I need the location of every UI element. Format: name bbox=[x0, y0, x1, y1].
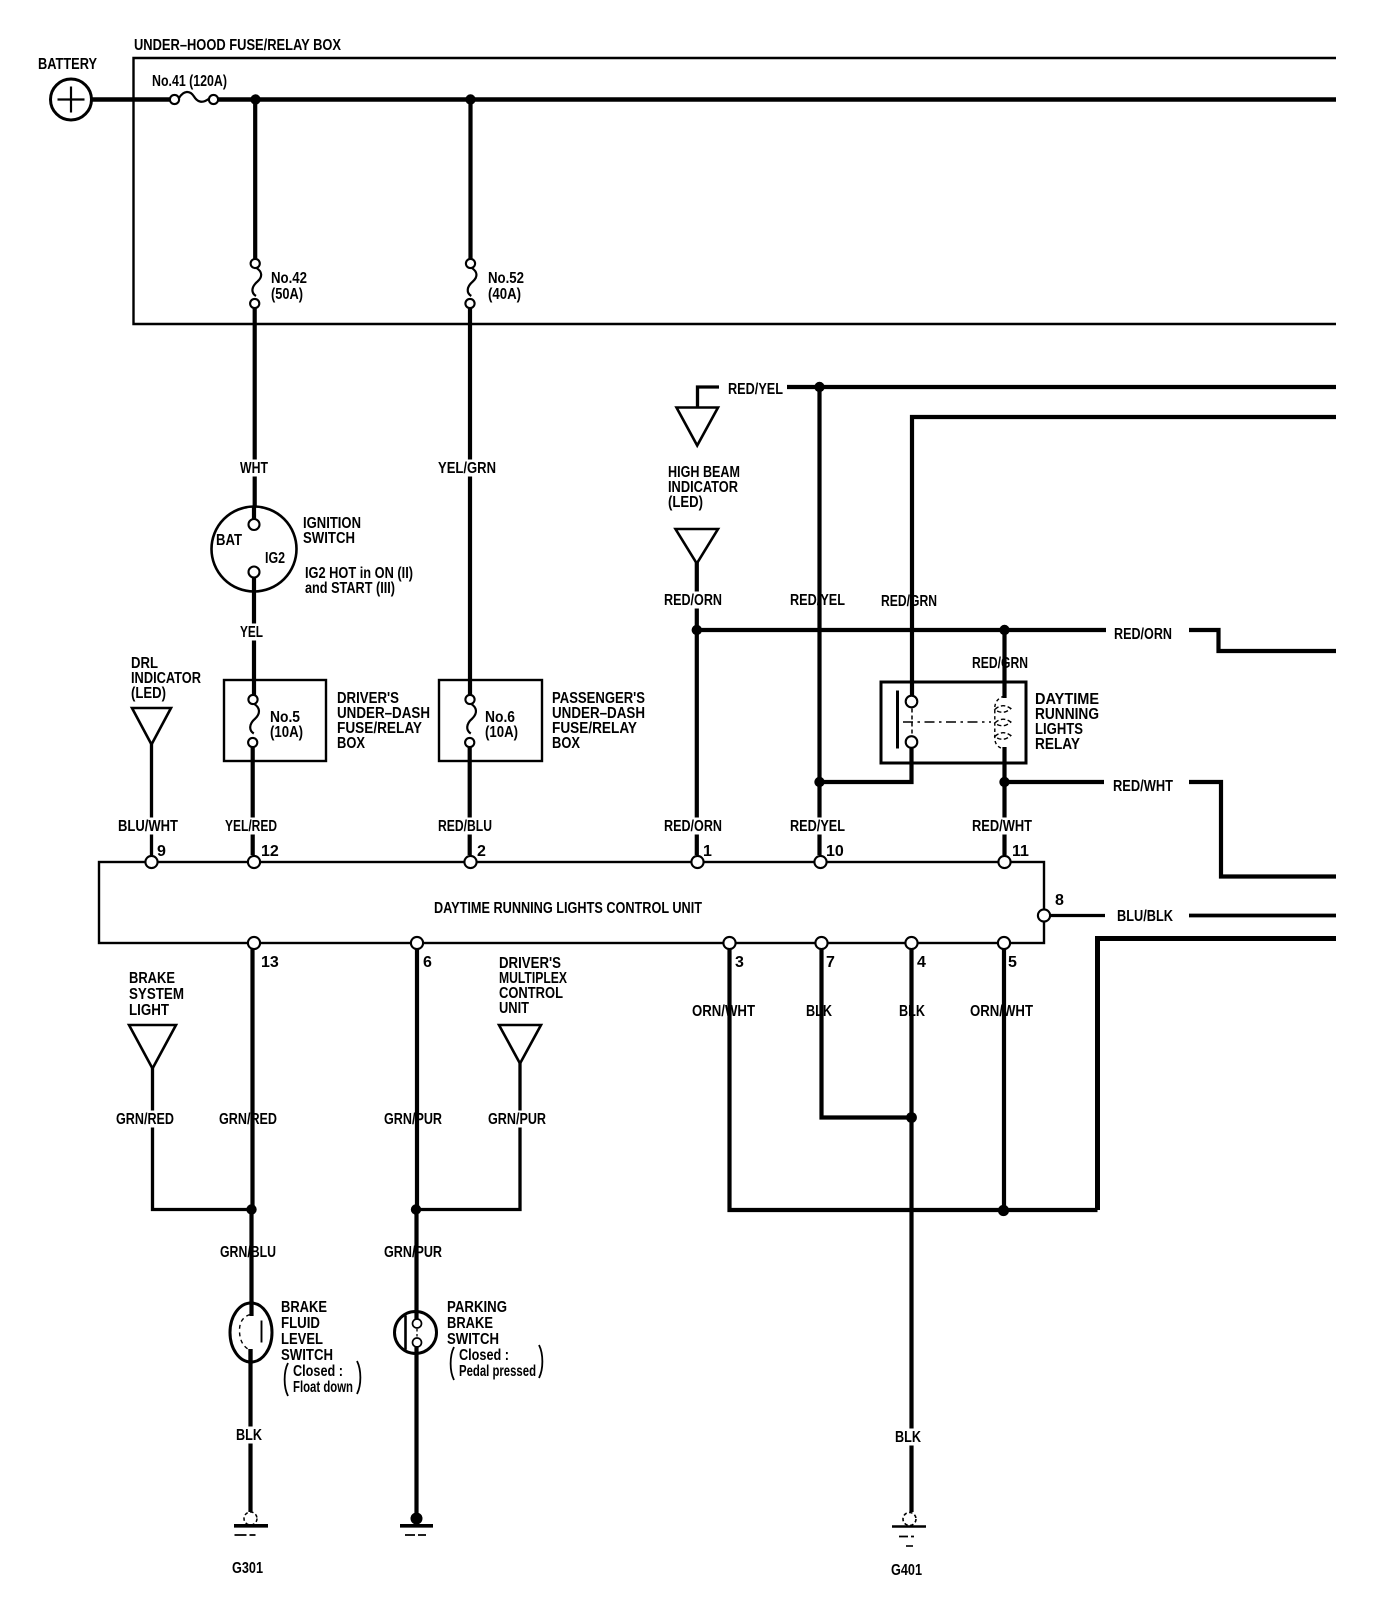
svg-text:RED/YEL: RED/YEL bbox=[728, 381, 783, 398]
svg-text:RED/BLU: RED/BLU bbox=[438, 818, 492, 835]
svg-text:SWITCH: SWITCH bbox=[303, 530, 355, 547]
svg-text:UNIT: UNIT bbox=[499, 1000, 529, 1017]
label WHT bbox=[237, 460, 271, 477]
svg-text:G401: G401 bbox=[891, 1562, 922, 1579]
svg-text:YEL/RED: YEL/RED bbox=[225, 818, 277, 835]
svg-text:No.42: No.42 bbox=[271, 270, 307, 287]
svg-text:(10A): (10A) bbox=[485, 724, 518, 741]
svg-text:BRAKE: BRAKE bbox=[447, 1315, 493, 1332]
svg-text:G301: G301 bbox=[232, 1560, 263, 1577]
wire RED/YEL bus to right edge bbox=[787, 385, 1336, 389]
svg-text:LEVEL: LEVEL bbox=[281, 1331, 323, 1348]
daytime running lights control unit box bbox=[99, 862, 1044, 943]
wire BLU/BLK pin 8 bbox=[1051, 914, 1105, 917]
svg-text:4: 4 bbox=[917, 954, 926, 971]
node junction bus/fuse52 bbox=[465, 94, 475, 104]
svg-text:RED/WHT: RED/WHT bbox=[972, 818, 1032, 835]
svg-text:GRN/PUR: GRN/PUR bbox=[488, 1111, 546, 1128]
svg-text:BLU/WHT: BLU/WHT bbox=[118, 818, 178, 835]
svg-text:(50A): (50A) bbox=[271, 286, 303, 303]
wire GRN/PUR multiplex branch bbox=[416, 1062, 520, 1210]
wire BLK pin 4 down to ground G401 bbox=[909, 949, 913, 1512]
driver's under-dash fuse/relay box bbox=[224, 680, 326, 761]
label RED/ORN above pin 1 bbox=[661, 818, 725, 835]
passenger's under-dash fuse/relay box bbox=[439, 680, 542, 761]
svg-text:12: 12 bbox=[261, 843, 279, 860]
high beam indicator LED triangle lower bbox=[676, 529, 719, 564]
wire YEL/RED fuse5 to pin 12 bbox=[251, 747, 255, 855]
label YEL bbox=[237, 624, 266, 641]
relay contact lower bbox=[906, 736, 918, 748]
node junction RED/ORN left bbox=[692, 625, 702, 635]
label GRN/PUR lower bbox=[381, 1244, 445, 1261]
label RED/YEL mid bbox=[787, 592, 848, 609]
ground G301 bbox=[234, 1512, 268, 1535]
svg-text:UNDER–HOOD FUSE/RELAY BOX: UNDER–HOOD FUSE/RELAY BOX bbox=[134, 37, 341, 54]
wire RED/WHT bus right bbox=[1008, 780, 1104, 784]
svg-text:(10A): (10A) bbox=[270, 724, 303, 741]
wire off-page to ORN/WHT branch y940 bbox=[1098, 939, 1337, 1211]
svg-text:LIGHT: LIGHT bbox=[129, 1002, 169, 1019]
wire GRN/RED brake light branch bbox=[153, 1067, 252, 1210]
node junction GRN/PUR bbox=[411, 1204, 421, 1214]
fuse No.41 bbox=[170, 92, 218, 104]
fuse No.6 bbox=[465, 695, 476, 747]
wire ORN/WHT pin 5 down bbox=[1002, 949, 1006, 1210]
svg-text:WHT: WHT bbox=[240, 460, 268, 477]
svg-text:13: 13 bbox=[261, 954, 279, 971]
label BLK pin 4 bbox=[896, 1003, 928, 1020]
svg-text:BLK: BLK bbox=[236, 1427, 262, 1444]
node junction ORN/WHT bbox=[998, 1205, 1009, 1216]
label RED/YEL above pin 10 bbox=[787, 818, 848, 835]
relay coil bbox=[995, 696, 1011, 749]
ignition switch bbox=[212, 507, 297, 592]
svg-text:(LED): (LED) bbox=[668, 494, 703, 511]
wire ORN/WHT pin 3 down and across bbox=[730, 949, 1098, 1210]
label GRN/RED right bbox=[216, 1111, 280, 1128]
wire relay coil to pin 11 bbox=[1002, 747, 1006, 855]
pin 5 bbox=[998, 937, 1010, 949]
label ORN/WHT pin 3 bbox=[689, 1003, 758, 1020]
wire RED/ORN horizontal bus y630 bbox=[697, 628, 1106, 632]
label RED/WHT above pin 11 bbox=[969, 818, 1035, 835]
wire GRN/BLU junction to brake fluid level switch bbox=[249, 1209, 253, 1303]
driver's multiplex control unit triangle bbox=[499, 1025, 541, 1064]
label ORN/WHT pin 5 bbox=[967, 1003, 1036, 1020]
svg-text:8: 8 bbox=[1055, 892, 1064, 909]
wire BLK pin 7 down to pin 4 column bbox=[822, 949, 912, 1118]
label GRN/RED left bbox=[113, 1111, 177, 1128]
svg-text:FLUID: FLUID bbox=[281, 1315, 320, 1332]
svg-text:(40A): (40A) bbox=[488, 286, 521, 303]
wire RED/GRN from right edge down to relay switch bbox=[912, 417, 1336, 696]
svg-text:GRN/BLU: GRN/BLU bbox=[220, 1244, 276, 1261]
svg-text:DAYTIME RUNNING LIGHTS CONTROL: DAYTIME RUNNING LIGHTS CONTROL UNIT bbox=[434, 900, 702, 917]
label BLK left bbox=[233, 1427, 265, 1444]
svg-text:YEL: YEL bbox=[240, 624, 263, 641]
svg-text:RED/GRN: RED/GRN bbox=[972, 655, 1028, 672]
svg-text:BAT: BAT bbox=[216, 532, 242, 549]
label YEL/RED bbox=[222, 818, 280, 835]
label BLU/WHT bbox=[115, 818, 181, 835]
svg-text:Float down: Float down bbox=[293, 1379, 353, 1396]
fuse No.42 bbox=[250, 259, 261, 308]
wire GRN/PUR junction to parking brake switch bbox=[414, 1209, 418, 1319]
brake system light triangle bbox=[129, 1025, 176, 1069]
svg-text:GRN/RED: GRN/RED bbox=[116, 1111, 174, 1128]
svg-text:7: 7 bbox=[826, 954, 835, 971]
svg-text:SWITCH: SWITCH bbox=[447, 1331, 499, 1348]
wire bus down to fuse No.42 bbox=[253, 100, 257, 260]
label BRAKE FLUID LEVEL SWITCH (Closed : Float down) bbox=[281, 1299, 360, 1396]
svg-text:9: 9 bbox=[157, 843, 166, 860]
pin 10 bbox=[814, 856, 826, 868]
node junction RED/YEL bbox=[814, 382, 824, 392]
wire YEL/GRN fuse52 to fuse box No.6 bbox=[468, 308, 472, 695]
wire relay switch to RED/YEL column bbox=[820, 747, 912, 782]
fuse No.5 bbox=[248, 695, 259, 747]
svg-text:ORN/WHT: ORN/WHT bbox=[692, 1003, 755, 1020]
svg-text:RED/WHT: RED/WHT bbox=[1113, 778, 1173, 795]
pin 12 bbox=[248, 856, 260, 868]
pin 9 bbox=[145, 856, 157, 868]
wire RED/GRN junction down to relay coil bbox=[1002, 630, 1006, 698]
svg-text:3: 3 bbox=[735, 954, 744, 971]
svg-text:SWITCH: SWITCH bbox=[281, 1347, 333, 1364]
node junction RED/ORN right bbox=[999, 625, 1009, 635]
DRL indicator LED triangle bbox=[132, 708, 171, 745]
label RED/GRN mid bbox=[878, 593, 940, 610]
svg-text:RELAY: RELAY bbox=[1035, 736, 1080, 753]
svg-text:RED/ORN: RED/ORN bbox=[664, 818, 722, 835]
under-hood fuse/relay box outline bbox=[134, 58, 1337, 324]
wire RED/ORN triangle to pin 1 bbox=[695, 562, 699, 855]
daytime running lights relay box bbox=[881, 682, 1026, 763]
wire RED/WHT off-page step bbox=[1189, 782, 1336, 877]
wire YEL ignition to fuse box No.5 bbox=[252, 578, 256, 695]
svg-text:BOX: BOX bbox=[552, 735, 580, 752]
svg-text:and START (III): and START (III) bbox=[305, 580, 395, 597]
svg-text:ORN/WHT: ORN/WHT bbox=[970, 1003, 1033, 1020]
svg-text:SYSTEM: SYSTEM bbox=[129, 986, 184, 1003]
battery bbox=[51, 79, 92, 120]
node junction RED/WHT bbox=[999, 777, 1009, 787]
svg-text:GRN/PUR: GRN/PUR bbox=[384, 1244, 442, 1261]
svg-text:BRAKE: BRAKE bbox=[129, 970, 175, 987]
pin 7 bbox=[815, 937, 827, 949]
label PARKING BRAKE SWITCH (Closed : Pedal pressed) bbox=[447, 1299, 542, 1380]
wire bus down to fuse No.52 bbox=[468, 100, 472, 260]
node junction GRN/RED bbox=[246, 1204, 256, 1214]
relay armature bar bbox=[896, 691, 899, 749]
svg-text:BLK: BLK bbox=[895, 1429, 921, 1446]
wire RED/ORN off-page step bbox=[1189, 630, 1336, 651]
wire WHT fuse42 to ignition switch bbox=[253, 308, 257, 519]
pin 1 bbox=[691, 856, 703, 868]
fuse No.52 bbox=[465, 259, 476, 308]
label BLK pin 7 bbox=[803, 1003, 835, 1020]
svg-text:GRN/RED: GRN/RED bbox=[219, 1111, 277, 1128]
relay dashed link bbox=[903, 721, 991, 723]
parking brake switch bbox=[395, 1312, 437, 1354]
svg-text:2: 2 bbox=[477, 843, 486, 860]
label GRN/BLU bbox=[217, 1244, 279, 1261]
pin 11 bbox=[998, 856, 1010, 868]
node junction bus/fuse42 bbox=[250, 94, 260, 104]
wire BLU/WHT DRL to pin 9 bbox=[150, 743, 153, 855]
pin 13 bbox=[248, 937, 260, 949]
wire GRN/PUR pin 6 down bbox=[415, 949, 419, 1209]
relay contact upper bbox=[906, 696, 918, 708]
wire main bus from fuse 41 to right edge bbox=[218, 97, 1336, 102]
svg-text:BATTERY: BATTERY bbox=[38, 56, 97, 73]
wire BLU/BLK off-page bbox=[1189, 914, 1336, 918]
svg-text:RED/GRN: RED/GRN bbox=[881, 593, 937, 610]
svg-text:IG2: IG2 bbox=[265, 550, 285, 567]
high beam indicator LED triangle upper bbox=[677, 408, 719, 446]
wire GRN/RED pin 13 down bbox=[250, 949, 254, 1209]
pin 4 bbox=[905, 937, 917, 949]
svg-text:RED/ORN: RED/ORN bbox=[664, 592, 722, 609]
brake fluid level switch bbox=[230, 1301, 272, 1364]
svg-text:RED/ORN: RED/ORN bbox=[1114, 626, 1172, 643]
svg-text:No.52: No.52 bbox=[488, 270, 524, 287]
svg-text:YEL/GRN: YEL/GRN bbox=[438, 460, 496, 477]
wire parking brake switch to ground bbox=[414, 1346, 418, 1519]
pin 2 bbox=[464, 856, 476, 868]
pin 8 bbox=[1038, 909, 1050, 921]
label BLK above G401 bbox=[892, 1429, 924, 1446]
svg-text:1: 1 bbox=[703, 843, 712, 860]
svg-text:11: 11 bbox=[1012, 843, 1029, 860]
label RED/BLU bbox=[435, 818, 495, 835]
svg-text:(LED): (LED) bbox=[131, 685, 166, 702]
svg-text:BRAKE: BRAKE bbox=[281, 1299, 327, 1316]
svg-text:5: 5 bbox=[1008, 954, 1017, 971]
label GRN/PUR left bbox=[381, 1111, 445, 1128]
node junction RED/YEL lower bbox=[814, 777, 824, 787]
svg-text:BLU/BLK: BLU/BLK bbox=[1117, 908, 1173, 925]
svg-text:Closed :: Closed : bbox=[293, 1363, 343, 1380]
wire RED/BLU fuse6 to pin 2 bbox=[468, 747, 472, 855]
label YEL/GRN bbox=[435, 460, 499, 477]
ground parking brake bbox=[400, 1513, 433, 1536]
node junction BLK bbox=[906, 1112, 917, 1123]
svg-text:No.41 (120A): No.41 (120A) bbox=[152, 73, 227, 90]
wire stub corner at RED/YEL bbox=[698, 387, 720, 408]
wire RED/YEL junction to pin 10 bbox=[817, 387, 821, 855]
wire BLK switch to ground G301 bbox=[248, 1349, 252, 1512]
svg-text:RED/YEL: RED/YEL bbox=[790, 818, 845, 835]
svg-text:10: 10 bbox=[826, 843, 844, 860]
label RED/ORN bbox=[661, 592, 725, 609]
pin 6 bbox=[411, 937, 423, 949]
svg-text:GRN/PUR: GRN/PUR bbox=[384, 1111, 442, 1128]
svg-text:PARKING: PARKING bbox=[447, 1299, 507, 1316]
svg-text:BOX: BOX bbox=[337, 735, 365, 752]
svg-text:Pedal pressed: Pedal pressed bbox=[459, 1363, 536, 1380]
pin 3 bbox=[723, 937, 735, 949]
svg-text:Closed :: Closed : bbox=[459, 1347, 509, 1364]
ground G401 bbox=[892, 1513, 926, 1547]
wire battery to fuse No.41 bbox=[91, 97, 170, 102]
svg-text:BLK: BLK bbox=[806, 1003, 832, 1020]
label GRN/PUR right bbox=[485, 1111, 549, 1128]
svg-text:6: 6 bbox=[423, 954, 432, 971]
